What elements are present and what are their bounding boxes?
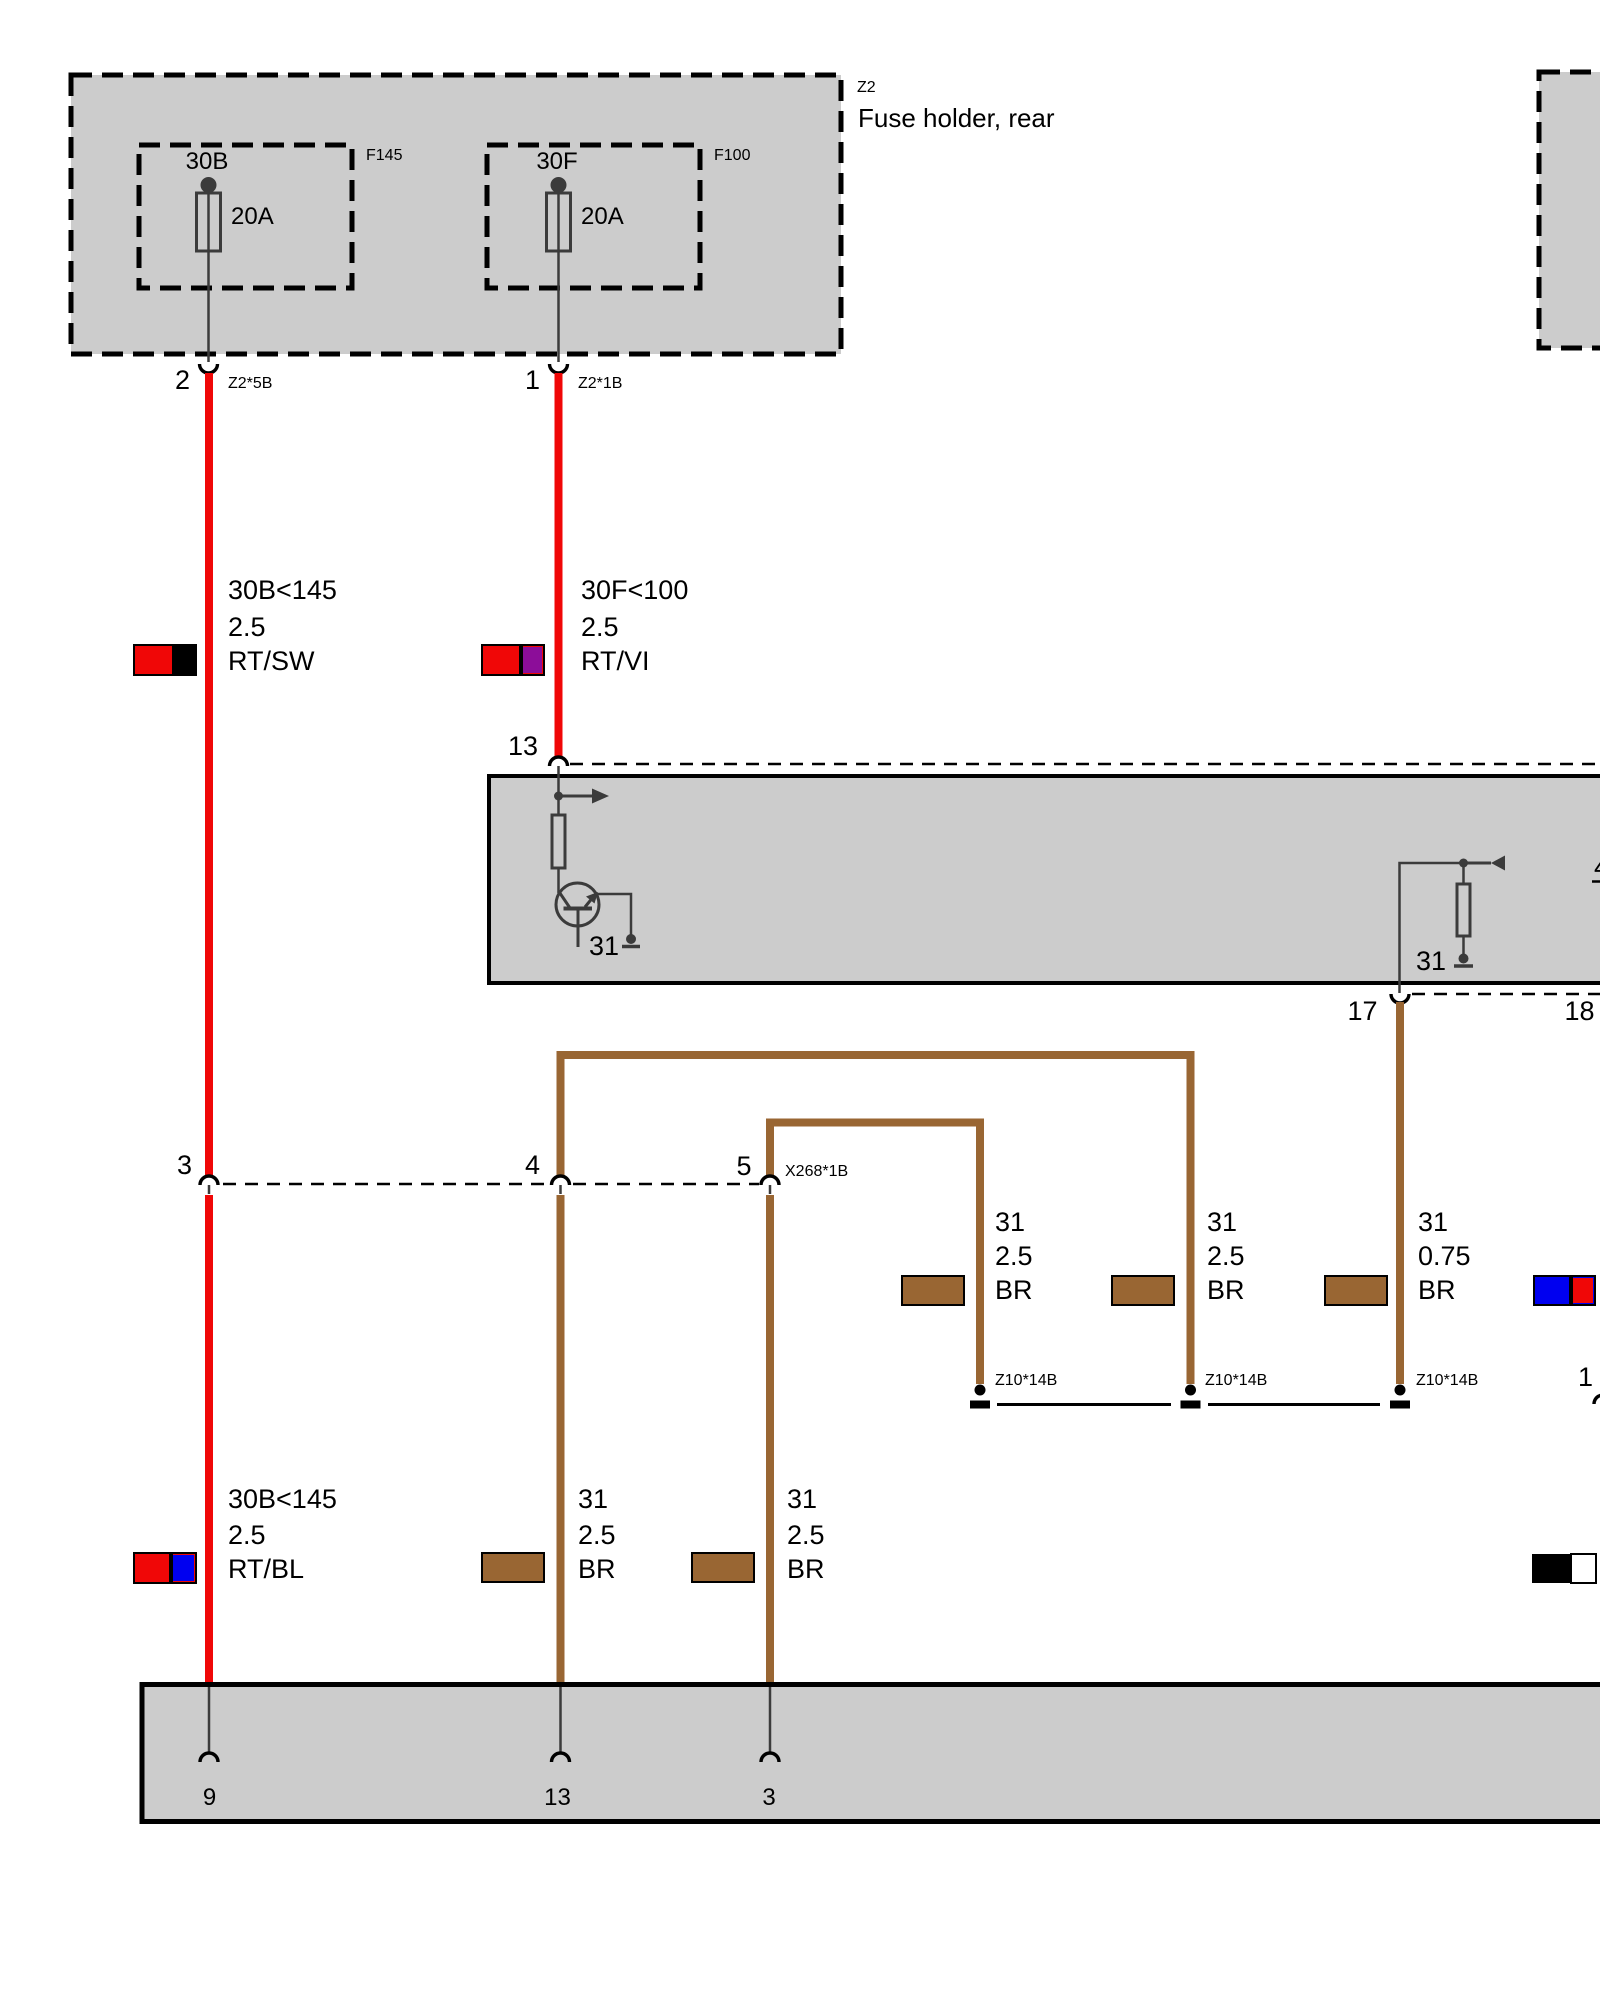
wire RT/SW red from fuse F145 to node 3 bbox=[205, 373, 213, 1176]
svg-text:Z2*5B: Z2*5B bbox=[228, 375, 272, 392]
pin 9 connector bbox=[200, 1753, 218, 1762]
svg-text:BR: BR bbox=[1207, 1275, 1245, 1305]
svg-text:9: 9 bbox=[203, 1784, 216, 1811]
wire label 31 2.5 BR (lower col 2) bbox=[787, 1484, 825, 1584]
partial pin 4x at right edge bbox=[1592, 852, 1600, 882]
pin 9 wire stub bbox=[208, 1687, 211, 1753]
ground Z10*14B (3) bbox=[1390, 1385, 1410, 1409]
svg-text:Z10*14B: Z10*14B bbox=[1205, 1372, 1267, 1389]
svg-text:5: 5 bbox=[736, 1151, 751, 1181]
pin 3 wire stub (bottom) bbox=[769, 1687, 772, 1753]
svg-text:Z10*14B: Z10*14B bbox=[995, 1372, 1057, 1389]
svg-text:13: 13 bbox=[544, 1784, 571, 1811]
svg-text:2.5: 2.5 bbox=[228, 1520, 266, 1550]
colour code box RT/VI bbox=[482, 645, 544, 675]
svg-text:RT/VI: RT/VI bbox=[581, 646, 650, 676]
wire R1 to transistor Q1 bbox=[557, 868, 560, 893]
fuse F100 symbol bbox=[547, 177, 571, 362]
colour code box BR (lower col 2) bbox=[692, 1553, 754, 1582]
svg-text:BR: BR bbox=[578, 1554, 616, 1584]
arrow out (signal) bbox=[559, 789, 610, 804]
wire label 30F<100 2.5 RT/VI bbox=[581, 575, 688, 676]
wire label 30B<145 2.5 RT/BL bbox=[228, 1484, 337, 1584]
pin 1 connector Z2*1B bbox=[550, 364, 568, 373]
svg-text:RT/SW: RT/SW bbox=[228, 646, 315, 676]
svg-text:RT/BL: RT/BL bbox=[228, 1554, 304, 1584]
svg-text:20A: 20A bbox=[231, 203, 274, 230]
svg-text:31: 31 bbox=[1418, 1207, 1448, 1237]
module top dashed boundary bbox=[570, 763, 1600, 766]
ground bus line bbox=[997, 1403, 1171, 1406]
fuse F145 symbol bbox=[197, 177, 221, 362]
svg-text:4: 4 bbox=[525, 1150, 540, 1180]
svg-text:F145: F145 bbox=[366, 147, 403, 164]
wire RT/BL red from node 3 to pin 9 bbox=[205, 1195, 213, 1682]
svg-text:Fuse holder, rear: Fuse holder, rear bbox=[858, 103, 1055, 133]
svg-text:Z10*14B: Z10*14B bbox=[1416, 1372, 1478, 1389]
svg-text:30F: 30F bbox=[536, 148, 577, 175]
svg-text:3: 3 bbox=[762, 1784, 775, 1811]
svg-text:BR: BR bbox=[995, 1275, 1033, 1305]
svg-text:BR: BR bbox=[787, 1554, 825, 1584]
svg-text:BR: BR bbox=[1418, 1275, 1456, 1305]
svg-text:31: 31 bbox=[589, 931, 619, 961]
colour code box BR (lower col 1) bbox=[482, 1553, 544, 1582]
wire BR from pin 5 to pin 3 bbox=[766, 1195, 774, 1682]
pin 13 connector bbox=[550, 757, 568, 766]
svg-text:2.5: 2.5 bbox=[581, 612, 619, 642]
svg-text:30B<145: 30B<145 bbox=[228, 575, 337, 605]
wire BR from pin 5 to ground Z10*14B (inner loop) bbox=[770, 1123, 980, 1385]
pin 3 connector X268 bbox=[200, 1176, 218, 1194]
fuse F100 dashed box bbox=[487, 145, 700, 288]
wire R2 to internal ground bbox=[1462, 936, 1465, 954]
wire label 30B<145 2.5 RT/SW bbox=[228, 575, 337, 676]
pin 2 connector Z2*5B bbox=[200, 364, 218, 373]
wire to resistor R1 bbox=[557, 796, 560, 815]
svg-text:2.5: 2.5 bbox=[995, 1241, 1033, 1271]
svg-text:Z2: Z2 bbox=[857, 79, 876, 96]
consumer module box bottom bbox=[142, 1685, 1600, 1822]
svg-text:2.5: 2.5 bbox=[1207, 1241, 1245, 1271]
svg-text:30F<100: 30F<100 bbox=[581, 575, 688, 605]
svg-text:1: 1 bbox=[1578, 1362, 1593, 1392]
partial component box top right bbox=[1539, 72, 1600, 348]
colour code box BR (col 2) bbox=[1112, 1276, 1174, 1305]
pin 4 connector X268 bbox=[552, 1176, 570, 1194]
wire BR from pin 17 to ground Z10*14B bbox=[1396, 1002, 1404, 1384]
wire pin13 into module bbox=[557, 766, 560, 798]
svg-text:31: 31 bbox=[578, 1484, 608, 1514]
pin 13 connector (bottom) bbox=[552, 1753, 570, 1762]
arrow in (signal) bbox=[1464, 856, 1506, 871]
wire dot to resistor R2 bbox=[1462, 863, 1465, 884]
wire RT/VI red from fuse F100 to pin 13 bbox=[555, 373, 563, 757]
pin 13 wire stub (bottom) bbox=[559, 1687, 562, 1753]
internal ground 31 (left) bbox=[622, 934, 640, 947]
svg-text:2.5: 2.5 bbox=[787, 1520, 825, 1550]
svg-text:31: 31 bbox=[787, 1484, 817, 1514]
svg-text:20A: 20A bbox=[581, 203, 624, 230]
colour code box RT/SW bbox=[134, 645, 196, 675]
svg-text:31: 31 bbox=[1207, 1207, 1237, 1237]
fuse F145 dashed box bbox=[139, 145, 352, 288]
colour code box BR (col 1) bbox=[902, 1276, 964, 1305]
control module box bbox=[489, 776, 1600, 983]
wire BR from pin 4 to pin 13 bbox=[557, 1195, 565, 1682]
resistor R1 bbox=[552, 815, 565, 868]
pin 3 connector (bottom) bbox=[761, 1753, 779, 1762]
svg-text:2: 2 bbox=[175, 365, 190, 395]
wire pin17 to R2 node bbox=[1400, 863, 1464, 993]
colour code box RT/BL bbox=[134, 1553, 196, 1583]
junction dot pin13 bbox=[554, 792, 563, 801]
internal ground 31 (right) bbox=[1454, 954, 1473, 967]
ground Z10*14B (2) bbox=[1181, 1385, 1201, 1409]
wire label 31 0.75 BR (col 3) bbox=[1418, 1207, 1471, 1305]
svg-text:2.5: 2.5 bbox=[578, 1520, 616, 1550]
svg-text:1: 1 bbox=[525, 365, 540, 395]
connector X268 dashed line bbox=[223, 1183, 759, 1186]
transistor Q1 bbox=[556, 883, 599, 947]
wire label 31 2.5 BR (col 1) bbox=[995, 1207, 1033, 1305]
svg-text:30B: 30B bbox=[186, 148, 229, 175]
svg-text:30B<145: 30B<145 bbox=[228, 1484, 337, 1514]
pin 5 connector X268 bbox=[761, 1176, 779, 1194]
wire label 31 2.5 BR (col 2) bbox=[1207, 1207, 1245, 1305]
wire label 31 2.5 BR (lower col 1) bbox=[578, 1484, 616, 1584]
svg-text:31: 31 bbox=[1416, 946, 1446, 976]
wire Q1 emitter to internal ground bbox=[597, 894, 632, 939]
colour code box BL/RT (right edge) bbox=[1534, 1276, 1595, 1305]
svg-text:3: 3 bbox=[177, 1150, 192, 1180]
svg-text:Z2*1B: Z2*1B bbox=[578, 375, 622, 392]
svg-text:17: 17 bbox=[1347, 996, 1377, 1026]
resistor R2 bbox=[1457, 884, 1470, 936]
svg-text:13: 13 bbox=[508, 731, 538, 761]
ground Z10*14B (1) bbox=[970, 1385, 990, 1409]
svg-text:X268*1B: X268*1B bbox=[785, 1163, 848, 1180]
svg-text:31: 31 bbox=[995, 1207, 1025, 1237]
junction dot R2 bbox=[1459, 859, 1468, 868]
module bottom dashed boundary bbox=[1412, 993, 1600, 996]
colour code box BR (col 3) bbox=[1325, 1276, 1387, 1305]
wire BR from pin 4 to ground Z10*14B (outer loop) bbox=[561, 1055, 1191, 1384]
pin 1 connector partial right edge bbox=[1594, 1395, 1600, 1404]
fuse holder Z2 box bbox=[71, 75, 841, 354]
colour code box SW/WS (right edge) bbox=[1532, 1554, 1596, 1583]
svg-text:18: 18 bbox=[1565, 996, 1595, 1026]
svg-text:2.5: 2.5 bbox=[228, 612, 266, 642]
svg-text:4: 4 bbox=[1594, 852, 1600, 882]
svg-text:F100: F100 bbox=[714, 147, 751, 164]
svg-text:0.75: 0.75 bbox=[1418, 1241, 1471, 1271]
pin 17 connector bbox=[1391, 994, 1409, 1003]
